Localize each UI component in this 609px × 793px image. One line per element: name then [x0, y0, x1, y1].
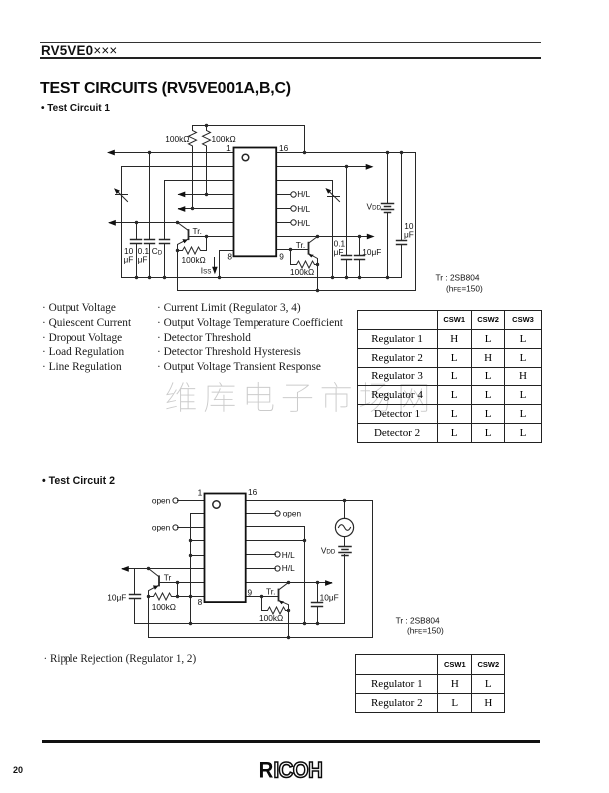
- node C22/rail1: [316, 622, 319, 625]
- svg-text:open: open: [152, 495, 171, 505]
- capacitor C6 10uF: [401, 153, 403, 278]
- resistor R6 100kOhm: [262, 597, 289, 615]
- node pin1 row / C2 drop: [148, 151, 151, 154]
- wire row3 right with drop: [277, 181, 333, 278]
- wire open row2 right: [247, 513, 276, 515]
- node CD/rail1: [163, 276, 166, 279]
- capacitor C2 0.1uF: [149, 153, 151, 278]
- node base/R3 riser: [205, 235, 208, 238]
- wire row4 left: [191, 540, 205, 542]
- arrowhead pin1 row: [107, 150, 115, 156]
- wire row5 left: [191, 555, 205, 557]
- svg-text:μF: μF: [138, 255, 148, 265]
- svg-text:μF: μF: [124, 255, 134, 265]
- node arrow row/C22: [316, 581, 319, 584]
- node row4/vert right: [303, 539, 306, 542]
- node Tr1/R3/drop: [176, 249, 179, 252]
- svg-text:8: 8: [227, 251, 232, 261]
- pin circle H/L 1: [291, 192, 296, 197]
- node R4/Tr2 collector: [316, 263, 319, 266]
- wire row2 right with arrow: [277, 166, 372, 168]
- pin circle open p1: [173, 498, 178, 503]
- svg-text:R: R: [259, 758, 274, 782]
- node pin9/R4 riser: [289, 248, 292, 251]
- transistor Tr4 emitter lead: [279, 583, 289, 591]
- node rail2/Tr2: [316, 289, 319, 292]
- node arrow row/Tr4: [287, 581, 290, 584]
- wire rail2: [178, 290, 416, 292]
- wire R5 right riser: [177, 583, 179, 597]
- node vert/rail1 left: [189, 622, 192, 625]
- pin circle H/L 2: [291, 206, 296, 211]
- transistor Tr4 collector lead: [279, 600, 289, 610]
- pin circle open row3 left: [173, 525, 178, 530]
- svg-text:μF: μF: [404, 229, 414, 239]
- wire top bias rail: [193, 126, 305, 153]
- svg-text:ICOH: ICOH: [274, 758, 323, 782]
- node row3drop/rail1: [331, 276, 334, 279]
- transistor Tr3 base wire: [160, 582, 205, 584]
- wire Tr2 drop to rail2: [317, 265, 319, 291]
- transistor Tr2 emitter lead: [309, 237, 318, 244]
- transistor Tr1 emitter lead: [178, 223, 189, 231]
- svg-text:1: 1: [198, 487, 203, 497]
- node pin16/AC drop: [343, 499, 346, 502]
- node top rail / R2 junction: [205, 124, 208, 127]
- svg-text:(hFE=150): (hFE=150): [407, 625, 444, 635]
- wire Tr4 drop to rail2: [288, 611, 290, 638]
- svg-text:9: 9: [279, 251, 284, 261]
- wire Tr3 drop to rail2: [148, 597, 150, 638]
- battery VDD circuit2: [339, 547, 351, 553]
- node pin16/VDD: [386, 151, 389, 154]
- wire H/L c2 pin1: [247, 554, 276, 556]
- Iss arrow: [214, 258, 216, 271]
- svg-text:open: open: [152, 522, 171, 532]
- wire open p1: [178, 500, 205, 502]
- transistor Tr3 collector lead: [149, 585, 160, 596]
- svg-text:10μF: 10μF: [362, 247, 381, 257]
- svg-text:100kΩ: 100kΩ: [290, 267, 314, 277]
- battery VDD: [387, 153, 389, 278]
- pin1 indicator circle U2: [213, 501, 220, 508]
- wire row5 left with arrow: [179, 208, 234, 210]
- svg-text:CD: CD: [152, 246, 163, 257]
- svg-text:Tr.: Tr.: [193, 226, 202, 236]
- svg-text:Tr.: Tr.: [296, 240, 305, 250]
- AC source SG1: [344, 501, 346, 519]
- node pin9/R6 riser: [260, 595, 263, 598]
- watermark 维库电子市场网: [166, 382, 427, 412]
- wire H/L pin 2: [277, 208, 291, 210]
- transistor Tr3 base bar: [158, 576, 160, 585]
- pin circle H/L 3: [291, 220, 296, 225]
- wire pin8 stub: [220, 251, 234, 278]
- wire H/L pin 3: [277, 222, 291, 224]
- transistor Tr1 base wire to pin: [189, 236, 234, 238]
- wire row2 left with drop to rail1: [122, 167, 234, 278]
- svg-text:H/L: H/L: [297, 218, 310, 228]
- wire row3 right + drop: [247, 527, 305, 624]
- node R6/Tr4 collector: [287, 609, 290, 612]
- variable arrow symbol left: [117, 191, 128, 202]
- node row2/C4: [345, 165, 348, 168]
- node Tr3/R5 left: [147, 595, 150, 598]
- svg-text:(hFE=150): (hFE=150): [446, 283, 483, 293]
- node pin16/C6: [400, 151, 403, 154]
- transistor Tr2 collector arrow: [308, 254, 313, 257]
- node pin8 row/vert: [189, 595, 192, 598]
- transistor Tr4 collector arrow: [279, 601, 284, 604]
- node Tr3 base/R5 riser: [176, 581, 179, 584]
- capacitor C1 10uF: [136, 223, 138, 278]
- capacitor CD: [164, 181, 166, 278]
- node C4/rail1: [345, 276, 348, 279]
- svg-text:Tr : 2SB804: Tr : 2SB804: [396, 615, 440, 625]
- resistor R4 100kOhm: [291, 250, 318, 269]
- svg-text:100kΩ: 100kΩ: [165, 134, 189, 144]
- node C1/rail1: [135, 276, 138, 279]
- wire row4 right: [247, 540, 305, 542]
- op-amp U1 DUT box: [234, 148, 277, 257]
- svg-text:8: 8: [198, 597, 203, 607]
- transistor Tr2 base wire pin9: [277, 249, 309, 251]
- resistor R1 100kOhm left bias: [189, 126, 197, 209]
- svg-text:1: 1: [226, 143, 231, 153]
- pin circle open right: [275, 511, 280, 516]
- svg-text:μF: μF: [334, 247, 344, 257]
- wire row4 left with arrow: [179, 194, 234, 196]
- svg-text:Tr.: Tr.: [266, 586, 275, 596]
- svg-text:Tr : 2SB804: Tr : 2SB804: [436, 273, 480, 283]
- wire pin16 row right + right edge: [247, 501, 373, 638]
- transistor Tr2 collector lead: [309, 254, 318, 265]
- node row3vert/rail1: [303, 622, 306, 625]
- node row5/vert: [189, 554, 192, 557]
- svg-text:H/L: H/L: [297, 204, 310, 214]
- svg-text:10μF: 10μF: [107, 593, 126, 603]
- resistor R5 100kOhm + pin8 row: [149, 593, 205, 600]
- wire rail2 c2: [149, 637, 373, 639]
- wire R3 right riser: [206, 237, 208, 251]
- wire rail1: [122, 277, 402, 279]
- transistor Tr1 base bar: [188, 230, 190, 239]
- pin circle H/L c2-2: [275, 566, 280, 571]
- node row6/Tr1 emitter: [176, 221, 179, 224]
- pin1 indicator circle U1: [242, 154, 249, 161]
- node pin8/rail1: [218, 276, 221, 279]
- wire row7 right with arrow: [277, 236, 373, 238]
- svg-text:ISS: ISS: [201, 266, 212, 276]
- node pin16/bias drop: [303, 151, 306, 154]
- svg-text:16: 16: [279, 143, 289, 153]
- wire row6 left with arrow: [110, 222, 234, 224]
- node row4/R2: [205, 193, 208, 196]
- arrowhead row2 right: [366, 164, 374, 170]
- node row7/Tr2: [316, 235, 319, 238]
- svg-text:H/L: H/L: [282, 563, 295, 573]
- wire pin16 row right + right edge: [277, 153, 416, 291]
- svg-text:VDD: VDD: [321, 545, 336, 555]
- svg-text:VDD: VDD: [367, 202, 382, 212]
- transistor Tr2 base bar: [308, 243, 310, 254]
- capacitor C5 10uF: [359, 237, 361, 278]
- capacitor C22 10uF: [317, 583, 319, 624]
- node row6/Tr3 emitter: [147, 567, 150, 570]
- wire row6 left with arrow: [123, 568, 205, 570]
- transistor Tr3 collector arrow: [153, 585, 158, 589]
- transistor Tr1 collector arrow: [182, 239, 187, 243]
- svg-text:100kΩ: 100kΩ: [182, 255, 206, 265]
- wire rail1 c2: [135, 623, 345, 625]
- wire open row3 left: [178, 527, 205, 529]
- wire row2 left + drop to rail1: [191, 514, 205, 624]
- resistor R2 100kOhm right bias: [203, 126, 211, 195]
- svg-text:100kΩ: 100kΩ: [259, 613, 283, 623]
- transistor Tr4 base wire pin9: [247, 596, 279, 598]
- wire pin1 row left: [109, 152, 234, 154]
- node row4/vert: [189, 539, 192, 542]
- op-amp U2 DUT box: [205, 494, 246, 603]
- svg-text:9: 9: [248, 587, 253, 597]
- node C5/rail1: [358, 276, 361, 279]
- capacitor C4 0.1uF: [346, 167, 348, 278]
- resistor R3 100kOhm: [178, 247, 207, 254]
- node R5 right: [176, 595, 179, 598]
- svg-text:10μF: 10μF: [320, 593, 339, 603]
- node rail2/Tr4: [287, 636, 290, 639]
- svg-text:open: open: [283, 509, 302, 519]
- wire arrow row right c2: [247, 582, 332, 584]
- transistor Tr3 emitter lead: [149, 569, 160, 577]
- svg-text:100kΩ: 100kΩ: [152, 602, 176, 612]
- svg-text:H/L: H/L: [282, 550, 295, 560]
- svg-text:Tr: Tr: [164, 572, 172, 582]
- wire H/L c2 pin2: [247, 568, 276, 570]
- wire Tr1 collector drop to rail2: [177, 251, 179, 291]
- node row7/C5: [358, 235, 361, 238]
- node VDD/rail1: [386, 276, 389, 279]
- capacitor C21 10uF: [134, 569, 136, 624]
- svg-text:100kΩ: 100kΩ: [212, 134, 236, 144]
- node row5/R1: [191, 207, 194, 210]
- svg-text:16: 16: [248, 487, 258, 497]
- node C2/rail1: [148, 276, 151, 279]
- node row6/C1: [135, 221, 138, 224]
- wire H/L pin 1: [277, 194, 291, 196]
- transistor Tr1 collector lead: [178, 239, 189, 251]
- wire row3 left: [165, 180, 234, 182]
- pin circle H/L c2-1: [275, 552, 280, 557]
- transistor Tr4 base bar: [278, 590, 280, 601]
- svg-text:H/L: H/L: [297, 189, 310, 199]
- variable arrow symbol right: [328, 191, 340, 202]
